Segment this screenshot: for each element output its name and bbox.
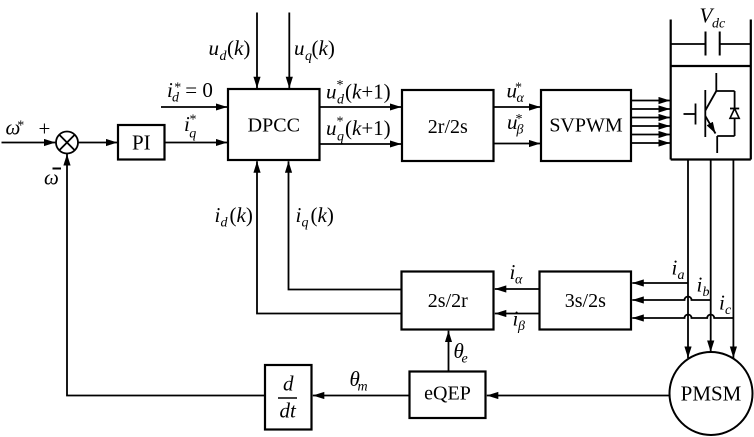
node ud*(k+1) label <box>326 78 391 108</box>
svg-text:u: u <box>326 116 337 140</box>
svg-text:q: q <box>302 216 309 231</box>
svg-text:(k): (k) <box>227 36 250 60</box>
wire summing junction to PI <box>78 142 117 144</box>
wire id-ref input to DPCC <box>161 106 227 108</box>
wire inverter phase a leg <box>687 160 689 359</box>
wire ud*(k+1) DPCC to 2r/2s <box>320 106 402 108</box>
node id-ref = 0 label <box>167 78 213 106</box>
svg-text:d: d <box>221 216 229 231</box>
node ib label <box>697 273 710 301</box>
svg-text:(k): (k) <box>312 36 335 60</box>
node omega feedback label <box>44 166 59 190</box>
svg-text:(k): (k) <box>311 203 334 227</box>
wire uq*(k+1) DPCC to 2r/2s <box>320 143 402 145</box>
node ia label <box>672 256 685 284</box>
wire ibeta 3s/2s to 2s/2r <box>495 313 540 315</box>
inverter bridge box <box>671 66 751 160</box>
svg-text:*: * <box>515 81 522 96</box>
wire id(k) 2s/2r to DPCC <box>257 161 402 313</box>
node ud(k) label <box>209 36 251 64</box>
svg-text:u: u <box>294 36 305 60</box>
node ualpha* label <box>507 79 525 107</box>
svg-text:u: u <box>326 80 337 104</box>
node plus sign <box>39 117 51 141</box>
svg-text:q: q <box>337 130 344 145</box>
svg-text:q: q <box>189 127 196 142</box>
node theta-m label <box>350 367 368 395</box>
node id(k) label <box>215 203 253 231</box>
svg-text:eQEP: eQEP <box>424 383 471 405</box>
svg-text:*: * <box>337 78 344 93</box>
block SVPWM <box>541 90 631 161</box>
svg-text:β: β <box>517 319 525 334</box>
block d/dt differentiator <box>265 365 312 430</box>
svg-text:*: * <box>337 115 344 130</box>
wire inverter phase c leg <box>732 160 734 359</box>
svg-text:ω: ω <box>44 166 59 190</box>
wire SVPWM to inverter gate signal 2 <box>631 108 670 110</box>
capacitor C1 dc-link <box>671 32 751 56</box>
block 2r/2s <box>402 90 494 161</box>
node iq-ref label <box>184 112 197 142</box>
inverter left rail <box>670 20 672 160</box>
svg-text:(k+1): (k+1) <box>345 116 391 140</box>
block PI <box>118 125 165 160</box>
svg-text:b: b <box>703 285 710 300</box>
svg-text:dc: dc <box>712 17 726 32</box>
wire inverter phase b leg <box>710 160 712 353</box>
svg-text:2s/2r: 2s/2r <box>428 290 468 312</box>
node Vdc label <box>700 4 727 32</box>
motor PMSM M1 <box>670 352 753 435</box>
wire ib tap to 3s/2s with hop <box>632 297 710 301</box>
node theta-e label <box>454 339 468 367</box>
node ibeta label <box>513 307 526 335</box>
svg-text:u: u <box>209 36 220 60</box>
svg-text:(k+1): (k+1) <box>345 80 391 104</box>
node ic label <box>719 291 732 319</box>
svg-text:3s/2s: 3s/2s <box>565 290 606 312</box>
wire ud(k) input from top <box>256 13 258 89</box>
svg-text:*: * <box>190 113 197 128</box>
wire ic tap to 3s/2s with hops <box>632 315 733 319</box>
svg-text:PI: PI <box>132 131 151 155</box>
wire theta-m eQEP to d/dt <box>313 395 410 397</box>
svg-text:m: m <box>358 380 368 395</box>
node ubeta* label <box>507 110 524 138</box>
diode D1 freewheeling <box>730 91 739 136</box>
svg-text:α: α <box>515 273 523 288</box>
inverter right rail <box>750 20 752 160</box>
wire SVPWM to inverter gate signal 3 <box>631 117 670 119</box>
svg-text:*: * <box>17 119 24 134</box>
svg-text:= 0: = 0 <box>185 78 213 102</box>
svg-text:d: d <box>337 93 345 108</box>
block 3s/2s <box>540 272 632 330</box>
svg-text:*: * <box>516 112 523 127</box>
node iq(k) label <box>296 203 334 231</box>
wire SVPWM to inverter gate signal 4 <box>631 125 670 127</box>
node minus sign <box>53 168 62 170</box>
node uq*(k+1) label <box>326 115 391 145</box>
wire ualpha* 2r/2s to SVPWM <box>494 106 541 108</box>
wire omega feedback d/dt to summing junction <box>67 154 265 396</box>
wire omega-ref input arrow <box>2 142 56 144</box>
wire theta-e eQEP to 2s/2r <box>448 331 450 372</box>
block 2s/2r <box>402 272 494 330</box>
wire iq(k) 2s/2r to DPCC <box>289 161 402 289</box>
svg-text:PMSM: PMSM <box>681 382 742 406</box>
svg-text:+: + <box>39 117 51 141</box>
block eQEP <box>410 372 486 419</box>
svg-text:c: c <box>725 303 732 318</box>
svg-text:2r/2s: 2r/2s <box>428 116 468 138</box>
wire SVPWM to inverter gate signal 6 <box>631 142 670 144</box>
block DPCC U1 <box>228 89 320 160</box>
node ialpha label <box>510 260 524 288</box>
summing junction <box>56 132 78 154</box>
wire ubeta* 2r/2s to SVPWM <box>494 143 541 145</box>
wire ialpha 3s/2s to 2s/2r <box>495 288 540 290</box>
svg-text:SVPWM: SVPWM <box>549 114 623 136</box>
wire ia tap to 3s/2s <box>632 282 688 284</box>
transistor Q1 IGBT <box>684 73 735 153</box>
svg-text:d: d <box>283 372 294 396</box>
node omega-ref label <box>6 116 25 140</box>
svg-text:DPCC: DPCC <box>248 114 300 136</box>
svg-text:dt: dt <box>280 399 298 423</box>
wire uq(k) input from top <box>288 13 290 89</box>
svg-text:e: e <box>462 352 468 367</box>
wire SVPWM to inverter gate signal 1 <box>631 100 670 102</box>
svg-text:a: a <box>678 268 685 283</box>
svg-text:*: * <box>174 80 181 95</box>
svg-text:(k): (k) <box>230 203 253 227</box>
node uq(k) label <box>294 36 335 64</box>
wire PMSM to eQEP <box>487 395 670 397</box>
wire SVPWM to inverter gate signal 5 <box>631 134 670 136</box>
wire iq-ref PI to DPCC <box>165 142 228 144</box>
